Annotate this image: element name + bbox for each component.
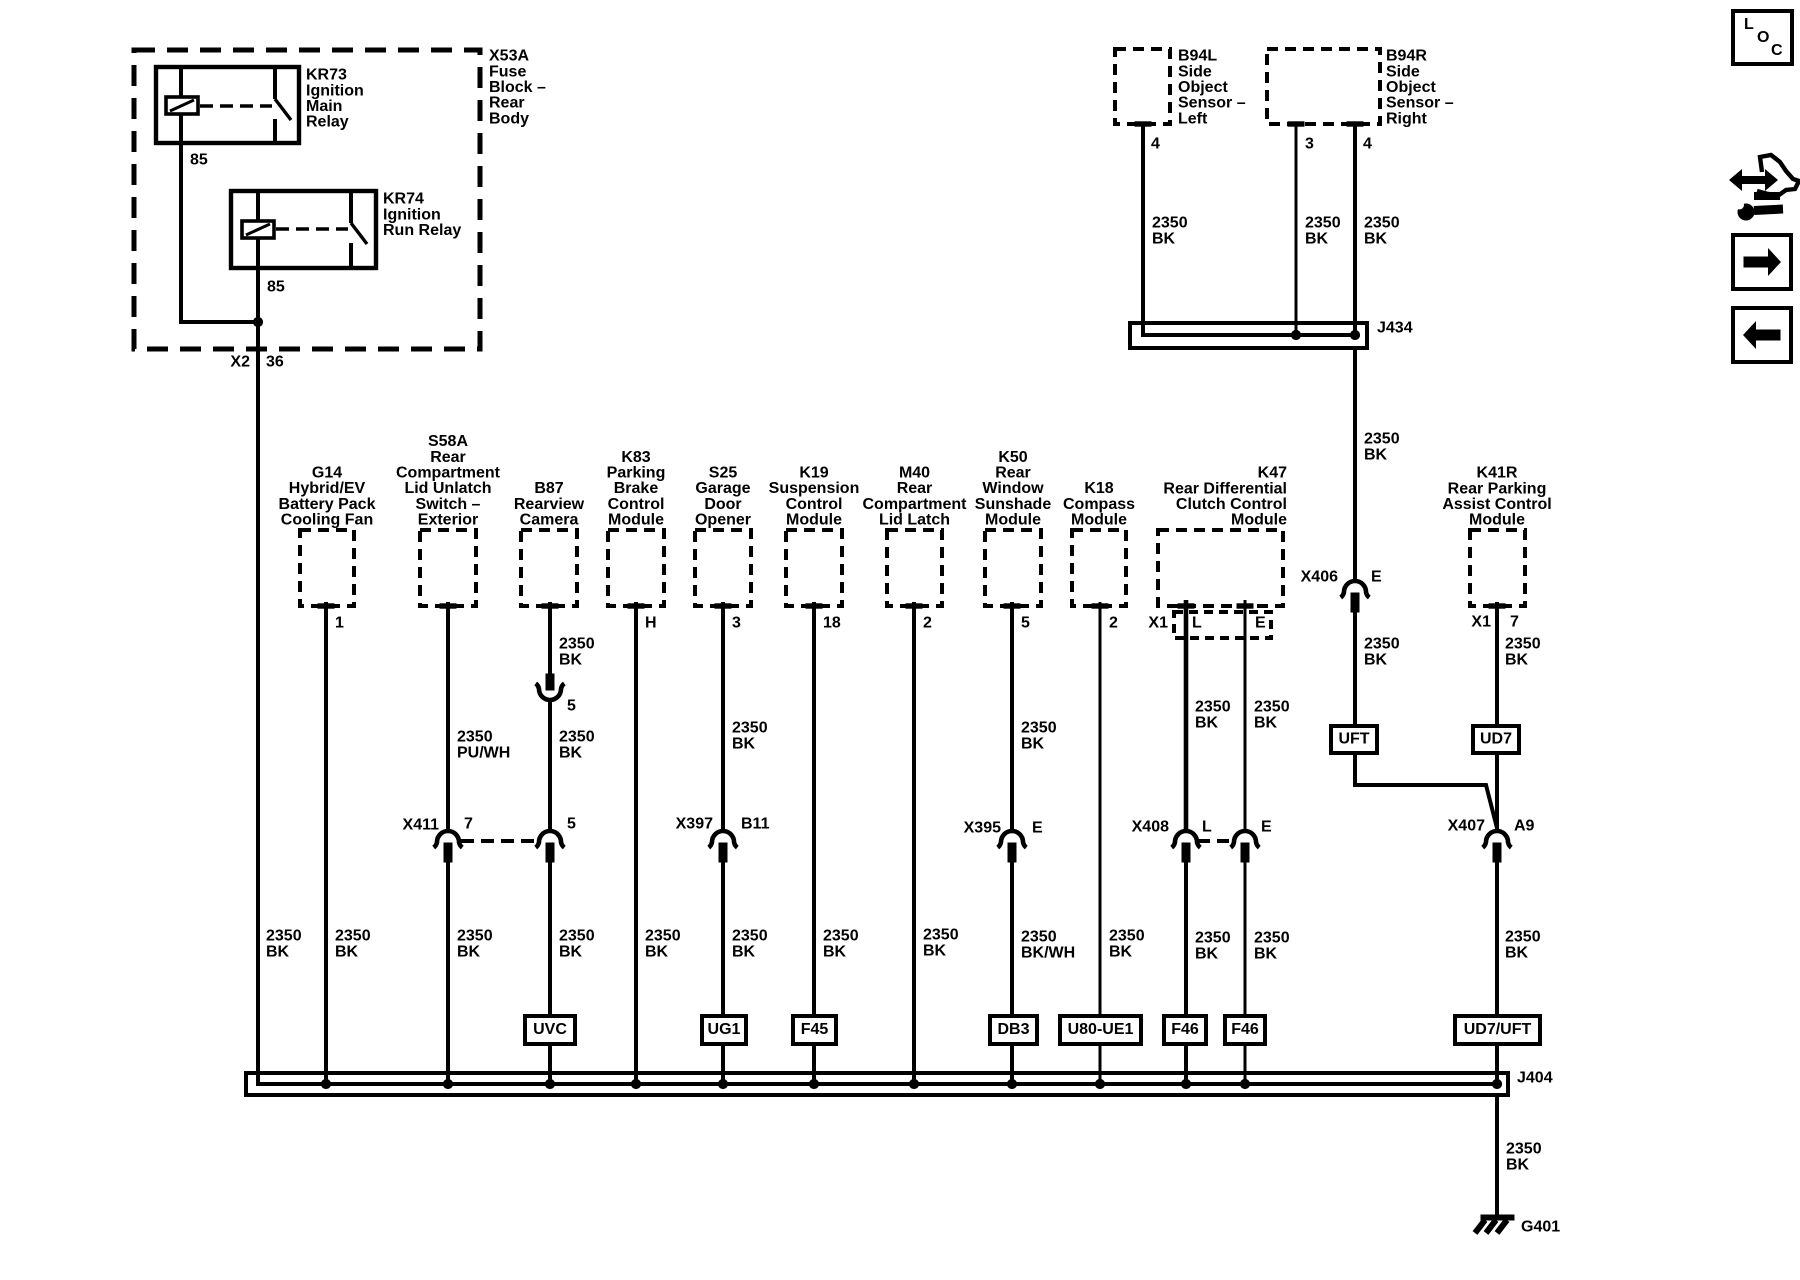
svg-text:Module: Module [1231,512,1287,529]
splice pack J434 [1130,323,1367,348]
inline connector X411 pin 7 [434,831,463,862]
K83 label [607,449,666,529]
component K50 (K50 Rear Window Sunshade Module) [985,530,1041,608]
svg-text:E: E [1261,819,1272,836]
svg-text:BK: BK [559,944,583,961]
component B87 (B87 Rearview Camera) [521,530,577,608]
svg-text:Exterior: Exterior [418,512,478,529]
svg-text:5: 5 [567,698,576,715]
svg-text:BK: BK [1364,231,1388,248]
wire label 2350 BK (K83) [645,928,681,961]
wire B87 to inline connector (2350 BK) [548,602,552,674]
svg-text:Run Relay: Run Relay [383,222,461,239]
junction J404 at x=1100 [1095,1079,1104,1088]
wire K47 pin L to connector X408 [1178,600,1194,831]
wire UD7 to connector X407 [1495,753,1499,831]
G401 label [1521,1219,1560,1236]
svg-text:2350: 2350 [335,928,371,945]
wire K41R X1/7 to UD7 fuse (2350 BK) [1495,602,1499,726]
inline connector X408 pin L [1172,831,1201,862]
svg-text:BK: BK [1254,715,1278,732]
svg-text:L: L [1744,16,1754,33]
K18 label [1063,480,1135,528]
svg-text:Lid Latch: Lid Latch [879,512,950,529]
K19 label [769,465,860,529]
B94L label [1178,48,1246,128]
junction J404 at x=914 [909,1079,918,1088]
S58A label [396,433,501,528]
svg-text:2350: 2350 [1195,699,1231,716]
wire KR73 pin 85 coil to junction [181,114,256,322]
svg-text:BK: BK [1364,447,1388,464]
svg-text:Side: Side [1386,63,1420,80]
svg-text:BK/WH: BK/WH [1021,945,1075,962]
svg-text:Hybrid/EV: Hybrid/EV [289,480,366,497]
svg-text:2: 2 [923,615,932,632]
svg-text:Cooling Fan: Cooling Fan [281,512,373,529]
svg-text:K50: K50 [998,449,1027,466]
svg-text:18: 18 [823,615,841,632]
svg-text:E: E [1371,569,1382,586]
wire M40 pin 2 to J404 [912,602,916,1084]
svg-text:X2: X2 [230,354,250,371]
wire label 2350 BK (S25 upper) [732,720,768,753]
junction J404 at x=723 [718,1079,727,1088]
G14 label [279,465,376,529]
M40 label [862,465,967,529]
svg-text:Fuse: Fuse [489,63,526,80]
wire label 2350 BK (B87 lower) [559,928,595,961]
wire label 2350 BK (below X406) [1364,636,1400,669]
J434 label [1377,320,1413,337]
wire label 2350 BK (K19) [823,928,859,961]
svg-text:K18: K18 [1084,480,1113,497]
wire X407 to J404 via UD7/UFT (2350 BK) [1495,862,1499,1084]
wire label 2350 BK (B87 upper) [559,636,595,669]
svg-text:Switch –: Switch – [416,496,481,513]
pin 18 label K19 [823,615,841,632]
svg-text:K41R: K41R [1477,465,1518,482]
svg-text:DB3: DB3 [997,1021,1029,1038]
svg-text:Control: Control [786,496,843,513]
svg-text:BK: BK [732,944,756,961]
svg-text:Suspension: Suspension [769,480,860,497]
wire K50 pin 5 to connector X395 [1010,602,1014,831]
node X2 pin 36 labels [230,354,283,371]
pin 85 label KR73 [190,152,208,169]
pin 4 label B94R [1363,136,1372,153]
svg-text:BK: BK [457,944,481,961]
wire S58A to connector X411 (2350 PU/WH) [446,602,450,831]
svg-text:M40: M40 [899,465,930,482]
svg-text:S58A: S58A [428,433,468,450]
X395 label [964,820,1001,837]
svg-text:E: E [1032,820,1043,837]
svg-text:2350: 2350 [1021,929,1057,946]
wire label 2350 BK (B94R pin 4) [1364,215,1400,248]
svg-text:2350: 2350 [1505,929,1541,946]
relay KR73 label [306,67,364,131]
svg-text:3: 3 [1305,136,1314,153]
fuse label F45 [793,1016,836,1044]
wire label 2350 BK (K47 E lower) [1254,930,1290,963]
pin E label X408 [1261,819,1272,836]
svg-text:Compass: Compass [1063,496,1135,513]
wire B87 pigtail to X411 pin 5 (2350 BK) [548,700,552,831]
wire B94R pin 4 to splice J434 [1353,124,1357,335]
svg-text:G401: G401 [1521,1219,1560,1236]
svg-text:Module: Module [1071,512,1127,529]
K41R label [1442,465,1551,529]
svg-text:3: 3 [732,615,741,632]
pin 3 label S25 [732,615,741,632]
svg-text:Left: Left [1178,110,1208,127]
wire J404 to ground G401 (2350 BK) [1495,1095,1499,1217]
svg-text:Module: Module [608,512,664,529]
svg-text:2350: 2350 [1195,930,1231,947]
wire X397 to J404 via UG1 [721,862,725,1084]
svg-text:Main: Main [306,98,342,115]
wire label 2350 BK (X407 lower) [1505,929,1541,962]
svg-text:BK: BK [266,944,290,961]
svg-text:X1: X1 [1148,615,1168,632]
svg-text:F46: F46 [1171,1021,1199,1038]
relay KR73 Ignition Main Relay [156,67,299,143]
wire label 2350 BK (S25 lower) [732,928,768,961]
svg-text:Sensor –: Sensor – [1386,95,1454,112]
K47 connector X1 sub-box [1174,612,1271,638]
wire UFT to connector X407 [1355,753,1497,828]
svg-text:B94R: B94R [1386,48,1427,65]
svg-text:5: 5 [1021,615,1030,632]
pin 5 label K50 [1021,615,1030,632]
svg-text:BK: BK [732,736,756,753]
fuse label UFT [1331,726,1377,753]
svg-text:Side: Side [1178,63,1212,80]
svg-text:U80-UE1: U80-UE1 [1068,1021,1134,1038]
wire K47 pin E to connector X408 [1237,600,1253,831]
svg-text:O: O [1757,29,1769,46]
B87 label [514,480,585,528]
fuse block X53A label [489,48,546,128]
fuse label DB3 [990,1016,1037,1044]
svg-text:Rear: Rear [995,465,1031,482]
svg-text:J434: J434 [1377,320,1413,337]
component K41R Rear Parking Assist Control Module [1470,530,1525,608]
svg-text:2350: 2350 [457,729,493,746]
svg-text:F45: F45 [801,1021,829,1038]
svg-text:4: 4 [1363,136,1372,153]
component K19 (K19 Suspension Control Module) [786,530,842,608]
pin L label X408 [1202,819,1212,836]
B94R label [1386,48,1454,128]
svg-text:36: 36 [266,354,284,371]
svg-text:Rear: Rear [489,95,525,112]
svg-text:BK: BK [559,652,583,669]
wire X408 E to J404 via F46 [1244,862,1247,1084]
wire label 2350 BK (S58A lower) [457,928,493,961]
wire K83 pin H to J404 [634,602,638,1084]
svg-text:Lid Unlatch: Lid Unlatch [404,480,491,497]
svg-text:BK: BK [1254,946,1278,963]
X1 label K47 [1148,615,1168,632]
ground G401 [1475,1215,1514,1233]
junction J404 at x=1245 [1240,1079,1249,1088]
wire X408 L to J404 via F46 [1184,862,1188,1084]
K47 label [1163,465,1287,529]
wire label 2350 BK (M40) [923,927,959,960]
fuse label UD7 [1473,726,1519,753]
svg-text:X408: X408 [1132,819,1169,836]
svg-text:BK: BK [1195,715,1219,732]
svg-text:F46: F46 [1231,1021,1259,1038]
svg-text:Battery Pack: Battery Pack [279,496,376,513]
svg-text:2350: 2350 [457,928,493,945]
wire label 2350 BK (K47 L lower) [1195,930,1231,963]
svg-text:Assist Control: Assist Control [1442,496,1551,513]
component K18 (K18 Compass Module) [1072,530,1126,608]
svg-text:KR73: KR73 [306,67,347,84]
inline connector X395 pin E [998,831,1027,862]
wire KR74 pin 85 coil down [256,238,260,322]
splice pack J404 [246,1073,1508,1095]
component K83 (K83 Parking Brake Control Module) [608,530,664,608]
svg-text:2350: 2350 [923,927,959,944]
wire label 2350 BK (K47 L upper) [1195,699,1231,732]
svg-text:Rear: Rear [430,449,466,466]
wire X395 to J404 via DB3 (2350 BK/WH) [1010,862,1014,1084]
inline connector X397 pin B11 [709,831,738,862]
pin 4 label B94L [1151,136,1160,153]
junction J404 at x=1012 [1007,1079,1016,1088]
component S25 (S25 Garage Door Opener) [695,530,751,608]
svg-text:Sensor –: Sensor – [1178,95,1246,112]
X411 label [403,817,440,834]
pin 2 label K18 [1109,615,1118,632]
wire S25 pin 3 to connector X397 [721,602,725,831]
X407 label [1448,818,1485,835]
svg-text:Parking: Parking [607,465,666,482]
svg-text:Opener: Opener [695,512,751,529]
fuse label UD7/UFT [1455,1016,1540,1044]
fuse block X53A dashed enclosure [134,50,480,349]
junction J404 at x=550 [545,1079,554,1088]
svg-text:Compartment: Compartment [396,465,501,482]
svg-text:B11: B11 [741,816,770,833]
pin B11 label X397 [741,816,770,833]
svg-text:Relay: Relay [306,114,349,131]
svg-text:UD7/UFT: UD7/UFT [1464,1021,1532,1038]
component S58A (S58A Rear Compartment Lid Unlatch Switch Exterior) [420,530,476,608]
svg-text:Door: Door [704,496,741,513]
inline connector X407 pin A9 [1483,831,1512,862]
svg-text:S25: S25 [709,465,738,482]
pin L label K47 [1192,615,1202,632]
svg-text:2350: 2350 [559,636,595,653]
pin 2 label M40 [923,615,932,632]
svg-text:X53A: X53A [489,48,529,65]
svg-text:Rear Differential: Rear Differential [1163,480,1287,497]
pin E label K47 [1255,615,1266,632]
svg-text:2350: 2350 [732,720,768,737]
junction J434 pin3 wire [1291,330,1300,339]
wire X411 pin5 to J404 via UVC [548,862,552,1084]
wire label 2350 BK (ground wire) [1506,1141,1542,1174]
wire label 2350 BK (K47 E upper) [1254,699,1290,732]
svg-text:Object: Object [1178,79,1228,96]
X408 label [1132,819,1169,836]
svg-text:BK: BK [1305,231,1329,248]
wire label 2350 BK (above X406) [1364,431,1400,464]
svg-text:K19: K19 [799,465,828,482]
junction relay 85 wires [253,317,262,326]
svg-text:2350: 2350 [1152,215,1188,232]
svg-text:2350: 2350 [1364,215,1400,232]
svg-text:Sunshade: Sunshade [975,496,1052,513]
svg-text:UG1: UG1 [708,1021,741,1038]
pin A9 label X407 [1514,818,1535,835]
svg-text:2350: 2350 [559,928,595,945]
svg-text:A9: A9 [1514,818,1535,835]
svg-text:Module: Module [1469,512,1525,529]
svg-text:Clutch Control: Clutch Control [1176,496,1287,513]
svg-text:Body: Body [489,110,529,127]
pin 1 label G14 [335,615,344,632]
fuse label UG1 [702,1016,746,1044]
svg-text:Rearview: Rearview [514,496,585,513]
wire label 2350 BK (K18) [1109,928,1145,961]
junction J404 at x=636 [631,1079,640,1088]
svg-text:B94L: B94L [1178,48,1217,65]
svg-text:BK: BK [1505,652,1529,669]
svg-text:B87: B87 [534,480,563,497]
component G14 (G14 Hybrid/EV Battery Pack Cooling Fan) [300,530,354,608]
svg-text:Block –: Block – [489,79,546,96]
relay KR74 Ignition Run Relay [231,191,376,268]
inline connector X408 pin E [1231,831,1260,862]
svg-text:4: 4 [1151,136,1160,153]
svg-text:Compartment: Compartment [862,496,967,513]
connector X411 dashed tie [461,839,538,843]
junction J404 at x=1497 [1492,1079,1501,1088]
svg-text:7: 7 [1510,614,1519,631]
svg-text:2350: 2350 [1254,930,1290,947]
svg-text:85: 85 [190,152,208,169]
svg-text:Object: Object [1386,79,1436,96]
fuse label UVC [525,1016,575,1044]
svg-text:K83: K83 [621,449,650,466]
svg-text:Rear: Rear [897,480,933,497]
svg-text:2350: 2350 [1364,636,1400,653]
pin 5 label X411 [567,816,576,833]
wire fuse block X2/36 to ground bus J404 (2350 BK) [258,322,1497,1084]
svg-text:2350: 2350 [1254,699,1290,716]
wire label 2350 PU/WH [457,729,510,762]
svg-text:UVC: UVC [533,1021,567,1038]
LOC reference box [1733,11,1792,64]
svg-text:UFT: UFT [1338,731,1369,748]
svg-text:Ignition: Ignition [306,82,364,99]
svg-text:2350: 2350 [1506,1141,1542,1158]
wire label 2350 BK (G14) [335,928,371,961]
component K47 Rear Differential Clutch Control Module [1158,530,1283,606]
wire label 2350 BK (B94R pin 3) [1305,215,1341,248]
connector X1 pin 7 labels K41R [1471,614,1519,631]
wire label 2350 BK (X2/36 wire) [266,928,302,961]
K50 label [975,449,1052,529]
svg-text:BK: BK [1152,231,1176,248]
svg-text:Camera: Camera [520,512,579,529]
svg-text:L: L [1202,819,1212,836]
svg-text:2350: 2350 [559,729,595,746]
wire G14 pin 1 to J404 [324,602,328,1084]
svg-text:2350: 2350 [823,928,859,945]
svg-text:K47: K47 [1258,465,1287,482]
component B94R Side Object Sensor Right [1267,49,1380,126]
svg-text:X397: X397 [676,816,713,833]
inline connector B87 pigtail pin 5 [536,674,565,700]
wire B94L pin 4 to splice J434 [1143,124,1355,335]
junction J404 at x=1186 [1181,1079,1190,1088]
svg-text:J404: J404 [1517,1070,1553,1087]
forward arrow box [1733,235,1791,289]
svg-text:1: 1 [335,615,344,632]
body repair icon (arrow, panel, wrench) [1729,155,1799,220]
X406 label [1301,569,1338,586]
svg-text:Module: Module [985,512,1041,529]
svg-text:PU/WH: PU/WH [457,745,510,762]
svg-text:BK: BK [559,745,583,762]
svg-text:Control: Control [608,496,665,513]
svg-text:E: E [1255,615,1266,632]
fuse label F46 (left) [1164,1016,1206,1044]
svg-text:G14: G14 [312,465,342,482]
wire X411 to J404 (2350 BK) [446,862,450,1084]
junction J434 pin4 wire [1350,330,1359,339]
svg-text:Window: Window [982,480,1044,497]
junction J404 at x=448 [443,1079,452,1088]
X397 label [676,816,713,833]
pin 3 label B94R [1305,136,1314,153]
pin E label X406 [1371,569,1382,586]
wire J434 to connector X406 [1353,348,1357,581]
svg-text:Brake: Brake [614,480,659,497]
svg-text:BK: BK [1506,1157,1530,1174]
svg-text:L: L [1192,615,1202,632]
inline connector X411 pin 5 [536,831,565,862]
svg-text:BK: BK [1021,736,1045,753]
svg-text:5: 5 [567,816,576,833]
svg-text:BK: BK [1364,652,1388,669]
svg-text:BK: BK [923,943,947,960]
svg-text:X411: X411 [403,817,440,834]
svg-text:X395: X395 [964,820,1001,837]
svg-text:BK: BK [645,944,669,961]
wire K19 pin 18 to J404 via F45 [812,602,816,1084]
pin 5 label (B87 pigtail) [567,698,576,715]
svg-text:7: 7 [464,816,473,833]
wire K18 pin 2 to J404 via U80-UE1 [1099,602,1102,1084]
relay KR74 label [383,191,461,239]
svg-text:BK: BK [1505,945,1529,962]
svg-text:C: C [1771,42,1783,59]
svg-text:Right: Right [1386,110,1428,127]
svg-text:X406: X406 [1301,569,1338,586]
pin E label X395 [1032,820,1043,837]
svg-text:2350: 2350 [645,928,681,945]
svg-text:X407: X407 [1448,818,1485,835]
svg-text:85: 85 [267,279,285,296]
